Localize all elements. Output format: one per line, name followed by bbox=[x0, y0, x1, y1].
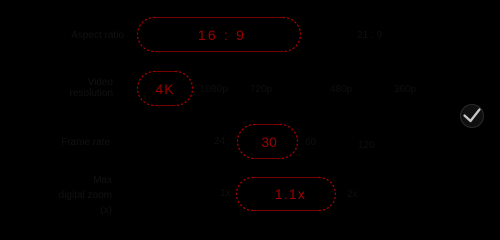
pill 4K selected bbox=[137, 71, 193, 106]
pill outline 4K bbox=[138, 72, 193, 106]
resolution options bbox=[200, 84, 228, 95]
pill outline 30 bbox=[238, 125, 298, 159]
label: zoom (3 lines) bbox=[32, 173, 112, 218]
option 21:9 bbox=[357, 30, 382, 41]
option 24 bbox=[214, 136, 225, 147]
label: Aspect ratio bbox=[44, 30, 124, 41]
option 1x bbox=[220, 188, 231, 199]
pill 30 selected bbox=[237, 124, 298, 159]
pill 1.1x selected bbox=[236, 177, 336, 211]
pill outline 16:9 bbox=[138, 18, 301, 52]
pill 16:9 selected bbox=[137, 17, 301, 52]
confirm check button bbox=[459, 103, 486, 130]
option 60 bbox=[305, 137, 316, 148]
label: resolution (2 lines) bbox=[33, 77, 113, 99]
pill outline 1.1x bbox=[237, 178, 336, 211]
label: Frame rate bbox=[30, 137, 110, 148]
option 2x bbox=[347, 189, 358, 200]
